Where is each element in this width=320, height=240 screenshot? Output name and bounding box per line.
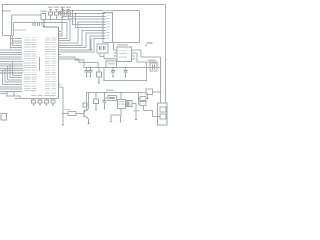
wire bbox=[137, 61, 158, 63]
wire bus bbox=[41, 19, 71, 21]
wire bbox=[66, 23, 68, 39]
resistor RN1 bbox=[41, 14, 46, 20]
capacitor C13 bbox=[140, 102, 146, 106]
junction bbox=[135, 103, 137, 105]
capacitor C12 bbox=[104, 93, 106, 101]
junction bbox=[86, 67, 88, 69]
wire bbox=[146, 56, 161, 58]
wire bbox=[3, 35, 13, 37]
wire bbox=[59, 57, 85, 68]
net label bbox=[12, 30, 26, 31]
U3 internal text bbox=[108, 63, 115, 64]
wire bundle to J2 bbox=[59, 16, 104, 52]
wire bbox=[138, 93, 140, 106]
U2 internal pin names bbox=[119, 49, 127, 52]
wire top feed to J2 pin bbox=[73, 11, 104, 25]
J2 pin numbers bbox=[107, 13, 110, 39]
wire bbox=[146, 62, 148, 81]
U1 rotated part name bbox=[39, 57, 40, 71]
capacitor C6 bbox=[55, 12, 59, 15]
capacitor C8 bbox=[67, 12, 71, 15]
connector J2 bbox=[103, 13, 113, 43]
ground bbox=[95, 106, 97, 109]
wire bbox=[62, 114, 64, 124]
wire bbox=[120, 93, 122, 100]
wire bbox=[153, 91, 161, 93]
junction bbox=[75, 13, 77, 15]
power flag VCC bbox=[62, 7, 64, 14]
capacitor C9 bbox=[98, 68, 100, 73]
net flag bbox=[145, 45, 147, 47]
wire bbox=[143, 106, 145, 111]
ground bbox=[112, 74, 114, 77]
regulator U3 bbox=[106, 61, 117, 68]
junction bbox=[147, 98, 149, 100]
X3 contact 1 bbox=[160, 107, 166, 112]
ground bbox=[86, 74, 88, 76]
wires left straight rows bbox=[0, 50, 23, 71]
junction bbox=[98, 67, 100, 69]
junction bbox=[103, 80, 105, 82]
junction bbox=[104, 92, 106, 94]
junction bbox=[95, 92, 97, 94]
capacitor C5 bbox=[49, 12, 53, 15]
wire bbox=[61, 13, 104, 15]
connector X3 bbox=[158, 103, 168, 125]
U2 left pin stubs bbox=[114, 49, 118, 51]
junction bbox=[103, 67, 105, 69]
regulator U4 bbox=[118, 100, 126, 109]
junction bbox=[43, 26, 45, 28]
wire right bus bbox=[165, 5, 167, 104]
crystal X1 bbox=[150, 63, 157, 71]
ground bbox=[32, 105, 34, 107]
wires lower nested fan bbox=[3, 62, 23, 85]
wire bbox=[86, 93, 88, 111]
wire bbox=[105, 97, 109, 99]
ground bbox=[98, 79, 100, 83]
wire top rail bbox=[2, 4, 166, 6]
diode D2 bbox=[108, 96, 117, 101]
wire GND rail bbox=[15, 98, 59, 100]
diode D3 bbox=[140, 97, 146, 101]
junction bbox=[112, 67, 114, 69]
resistor R1 bbox=[63, 113, 68, 115]
junction bbox=[72, 10, 74, 12]
capacitor CG1 bbox=[31, 95, 36, 96]
net label GND bbox=[134, 110, 140, 111]
diode D1 bbox=[146, 89, 153, 95]
wire bbox=[90, 39, 92, 50]
jumper pin ticks bbox=[32, 23, 34, 27]
ground bbox=[125, 74, 127, 77]
wire bbox=[153, 62, 155, 63]
junction bbox=[135, 118, 137, 120]
capacitor C4 bbox=[90, 68, 92, 71]
wire top feed to J2 pin bbox=[76, 14, 104, 28]
junction bbox=[90, 67, 92, 69]
wire bbox=[110, 115, 112, 118]
ground bbox=[110, 118, 112, 122]
wire bbox=[135, 49, 141, 51]
junction bbox=[62, 124, 64, 126]
resistor R3 bbox=[95, 93, 97, 100]
optocoupler U2 bbox=[117, 47, 132, 62]
wire bbox=[113, 43, 115, 51]
capacitor CG3 bbox=[44, 95, 49, 96]
wire Q1 emitter bbox=[88, 119, 90, 123]
net label VIN bbox=[106, 90, 114, 91]
wire bbox=[0, 93, 7, 95]
U1 pin name labels bbox=[45, 37, 56, 95]
wire bbox=[103, 68, 105, 81]
wire bbox=[120, 109, 122, 116]
wire bbox=[117, 97, 118, 99]
wire dark row bbox=[0, 72, 23, 74]
wire inner right vertical bbox=[139, 11, 141, 43]
capacitor C7 bbox=[61, 12, 65, 15]
capacitor C3 bbox=[86, 68, 88, 71]
wire net labels left bbox=[24, 37, 37, 91]
ground bbox=[39, 105, 41, 107]
terminal TP1 bbox=[1, 114, 7, 120]
wire +5V rail bbox=[84, 67, 161, 69]
U1 right pin stubs bbox=[59, 32, 62, 60]
wire bbox=[103, 57, 105, 59]
wires top fan rows bbox=[11, 39, 23, 48]
U2 right pin stubs bbox=[132, 49, 136, 51]
wire VIN net bbox=[87, 92, 147, 94]
junction bbox=[90, 49, 92, 51]
terminal PWR bbox=[83, 103, 87, 107]
capacitor CG2 bbox=[38, 95, 43, 96]
wire bbox=[59, 59, 99, 67]
junction bbox=[160, 91, 162, 93]
wires bottom rows bbox=[0, 87, 22, 92]
wire bbox=[14, 22, 68, 24]
X3 contact 2 bbox=[160, 114, 166, 119]
capacitor C10 bbox=[112, 68, 114, 71]
junction bbox=[138, 98, 140, 100]
wire MCU top pin feed bbox=[43, 20, 45, 28]
wire bbox=[62, 87, 64, 114]
microcontroller U1 top edge bbox=[44, 26, 59, 28]
wire bbox=[14, 95, 20, 97]
wire bbox=[103, 42, 140, 44]
wire bbox=[126, 103, 131, 105]
node +5V label bbox=[3, 10, 6, 12]
wire bbox=[40, 14, 42, 16]
capacitor C11 bbox=[125, 68, 127, 71]
U1 bottom pin stubs bbox=[59, 84, 61, 86]
junction bbox=[62, 113, 64, 115]
capacitor group C1 C2 bbox=[97, 44, 108, 53]
wire right inner bus bbox=[160, 57, 162, 103]
junction bbox=[125, 67, 127, 69]
wire bbox=[99, 53, 101, 57]
wire bbox=[132, 103, 136, 105]
wire bbox=[67, 11, 69, 14]
ground bbox=[104, 105, 106, 109]
wire bbox=[120, 115, 122, 118]
ground bbox=[90, 74, 92, 76]
junction bbox=[120, 92, 122, 94]
wire top horizontal net bbox=[63, 10, 140, 12]
junction bbox=[146, 80, 148, 82]
wire fan vertical bbox=[10, 36, 12, 49]
microcontroller U1 right edge bbox=[58, 27, 60, 99]
capacitor CG4 bbox=[51, 95, 56, 96]
ground bbox=[45, 105, 47, 107]
ground bbox=[52, 105, 54, 107]
wire bbox=[146, 98, 148, 100]
junction bbox=[88, 122, 90, 124]
wire bbox=[135, 52, 137, 54]
wire bbox=[12, 14, 42, 16]
wire fan vertical bbox=[12, 36, 14, 47]
wire bbox=[135, 104, 137, 119]
J2 pin stubs bbox=[103, 14, 106, 39]
resistor R2 bbox=[7, 92, 14, 97]
wire left bus bbox=[2, 5, 4, 36]
transistor Q1 bbox=[83, 110, 85, 118]
wire Q1 collector bbox=[88, 93, 90, 110]
power jack X2 bbox=[126, 101, 132, 107]
wire bbox=[104, 80, 147, 82]
ground bbox=[120, 118, 122, 122]
